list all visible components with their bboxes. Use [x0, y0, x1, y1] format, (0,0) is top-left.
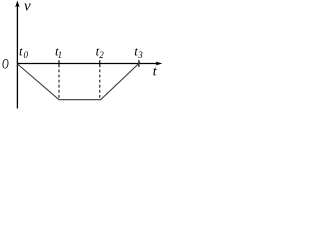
- v axis: [15, 1, 19, 109]
- t3 label: [134, 44, 143, 60]
- dashed line t1: [58, 70, 60, 100]
- svg-text:0: 0: [24, 50, 29, 60]
- svg-text:v: v: [24, 0, 31, 15]
- tick t1: [58, 60, 60, 67]
- t0 label: [19, 44, 29, 60]
- svg-text:2: 2: [99, 50, 104, 60]
- t2 label: [96, 44, 105, 60]
- svg-text:3: 3: [137, 50, 143, 60]
- tick t2: [99, 60, 101, 67]
- svg-text:1: 1: [58, 50, 63, 60]
- tick t3: [138, 60, 140, 67]
- t axis: [17, 62, 162, 66]
- svg-text:t: t: [153, 65, 158, 80]
- svg-text:t: t: [19, 44, 23, 59]
- dashed line t2: [99, 70, 101, 100]
- t1 label: [55, 44, 62, 60]
- velocity curve: [18, 62, 141, 99]
- svg-text:O: O: [2, 55, 9, 72]
